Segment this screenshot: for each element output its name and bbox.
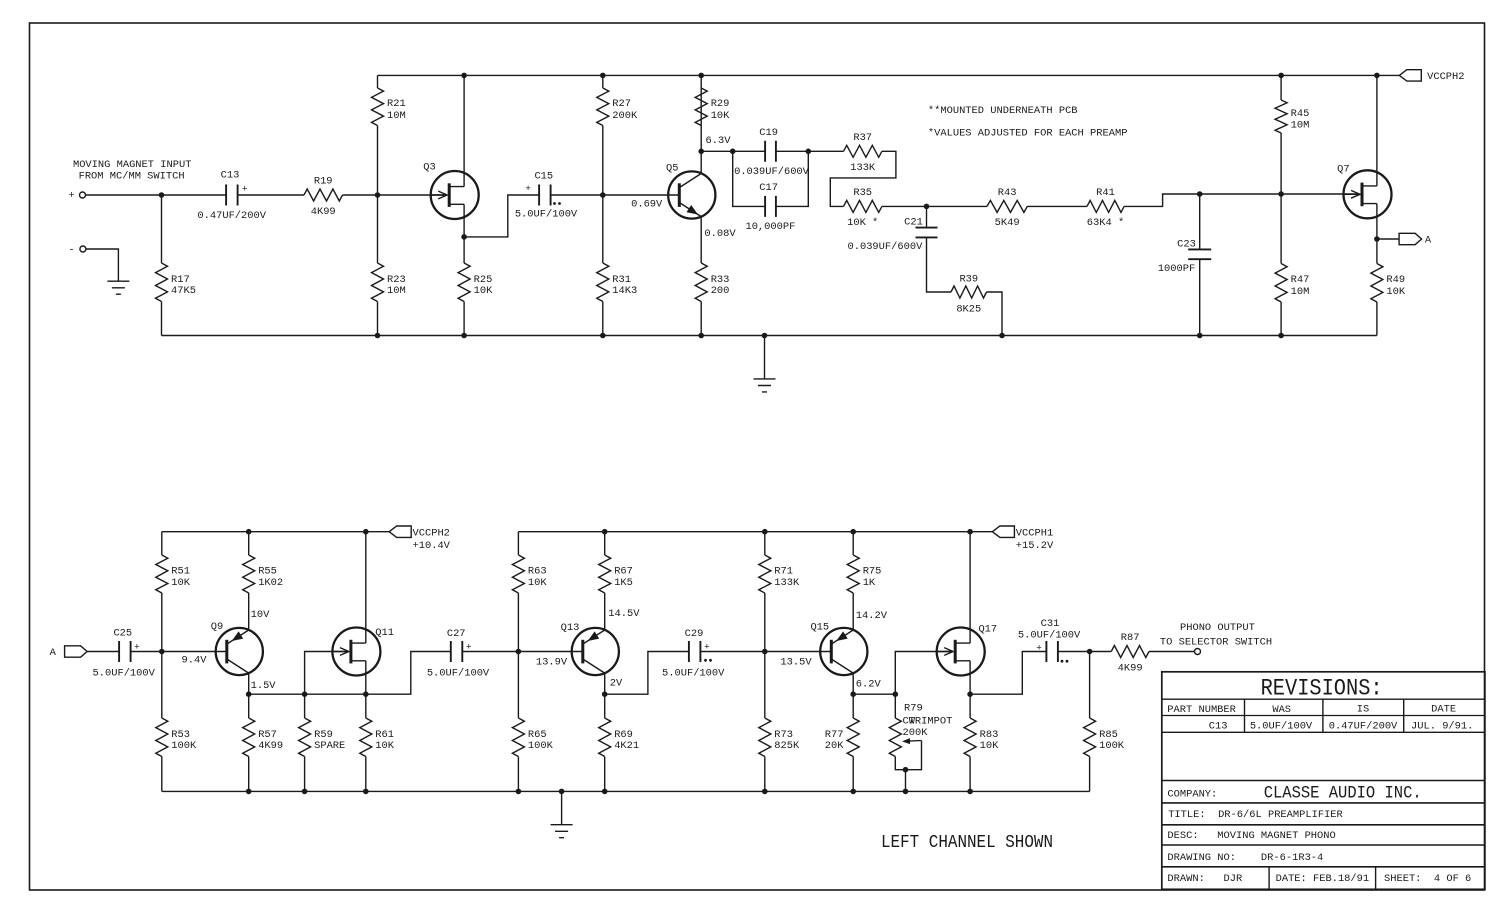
wire R27 to junction	[602, 126, 604, 196]
svg-text:TO SELECTOR SWITCH: TO SELECTOR SWITCH	[1160, 637, 1272, 649]
svg-text:R83: R83	[980, 729, 999, 741]
revision table column lines	[1245, 699, 1404, 732]
svg-text:Q17: Q17	[978, 623, 997, 635]
svg-text:C15: C15	[534, 171, 553, 183]
wire junction to R59	[304, 694, 306, 718]
wire C31 to R87	[1058, 651, 1111, 653]
wire junction to R23	[377, 195, 379, 263]
svg-text:+: +	[68, 190, 74, 202]
junction	[363, 789, 369, 795]
junction R45/R47 node	[1278, 191, 1284, 197]
resistor R57	[243, 718, 255, 757]
resistor R85	[1084, 718, 1096, 757]
title block line above company	[1162, 780, 1485, 782]
transistor Q11 JFET	[332, 628, 380, 676]
junction Q3 source/R25	[461, 234, 467, 240]
wire rail to R55	[248, 532, 250, 555]
ground input	[107, 281, 129, 294]
svg-text:R25: R25	[474, 274, 493, 286]
wire R83 to bottom rail	[969, 757, 971, 792]
resistor R27	[597, 88, 609, 126]
wire node to C23	[1199, 194, 1201, 249]
svg-text:10K: 10K	[980, 740, 999, 752]
wire R49 to bottom rail	[1376, 302, 1378, 336]
resistor R69	[599, 718, 611, 757]
resistor R35	[844, 200, 882, 212]
wire rail to R45	[1280, 75, 1282, 100]
wire Q15 collector down	[852, 673, 854, 694]
svg-text:R37: R37	[853, 132, 872, 144]
junction R55 rail	[246, 529, 252, 535]
svg-text:5.0UF/100V: 5.0UF/100V	[1250, 721, 1313, 733]
wire C29 to Q15 base	[700, 651, 831, 653]
svg-text:R59: R59	[314, 729, 333, 741]
junction R39 bottom rail	[999, 333, 1005, 339]
svg-text:10M: 10M	[1291, 120, 1310, 132]
wire R23 to bottom rail	[377, 302, 379, 336]
resistor R65	[512, 718, 524, 757]
svg-text:R31: R31	[612, 274, 631, 286]
junction Q13 collector	[602, 691, 608, 697]
svg-text:COMPANY:: COMPANY:	[1167, 789, 1217, 801]
svg-text:1K02: 1K02	[258, 577, 283, 589]
top rail VCCPH2 net	[378, 74, 1400, 76]
wire 6.3V to C19	[701, 150, 765, 152]
svg-text:10K *: 10K *	[847, 217, 878, 229]
wire flag A to C25	[87, 651, 119, 653]
wire R45 to node	[1280, 133, 1282, 194]
wire - input to ground	[86, 249, 119, 281]
svg-text:R23: R23	[387, 274, 406, 286]
resistor R87	[1111, 646, 1149, 658]
svg-text:**MOUNTED UNDERNEATH PCB: **MOUNTED UNDERNEATH PCB	[928, 105, 1078, 117]
flag VCCPH2 bottom	[389, 526, 411, 537]
wire R51 to junction	[161, 593, 163, 652]
resistor R73	[759, 718, 771, 757]
junction R79 bottom rail	[903, 789, 909, 795]
junction R47 bottom rail	[1278, 333, 1284, 339]
wire R79 to bottom rail	[905, 770, 907, 792]
title block line under drawing no	[1162, 866, 1485, 868]
svg-text:TRIMPOT: TRIMPOT	[909, 716, 953, 728]
wire R19 to Q3 gate	[343, 194, 447, 196]
resistor R59	[299, 718, 311, 757]
svg-text:+: +	[242, 183, 248, 194]
svg-text:133K: 133K	[774, 577, 800, 589]
svg-text:R17: R17	[171, 274, 190, 286]
wire Q5 emitter to R33	[700, 217, 702, 263]
junction	[461, 333, 467, 339]
resistor R61	[360, 718, 372, 757]
resistor R53	[156, 718, 168, 757]
svg-text:14K3: 14K3	[612, 285, 637, 297]
wire R79 bottom	[895, 757, 905, 770]
wire node A to R49	[1376, 239, 1378, 264]
wire R77 to bottom rail	[852, 757, 854, 792]
svg-text:+15.2V: +15.2V	[1016, 540, 1054, 552]
resistor R71	[759, 555, 771, 593]
wire R69 to bottom rail	[604, 757, 606, 792]
transistor Q17 JFET	[937, 628, 985, 676]
svg-text:1.5V: 1.5V	[251, 680, 277, 692]
svg-text:C17: C17	[759, 182, 778, 194]
title block line under title	[1162, 824, 1485, 826]
wire R33 to bottom rail	[700, 302, 702, 336]
transistor Q13 PNP	[572, 628, 619, 675]
wire R17 to bottom rail	[161, 302, 163, 336]
junction R75 rail	[850, 529, 856, 535]
wire input to C13	[86, 194, 227, 196]
wire Q13 collector down	[604, 673, 606, 694]
svg-text:R61: R61	[375, 729, 394, 741]
junction C31/R85	[1087, 649, 1093, 655]
svg-text:TITLE: DR-6/6L PREAMPLIFIER: TITLE: DR-6/6L PREAMPLIFIER	[1168, 809, 1343, 821]
wire to Q17 gate	[895, 652, 950, 695]
junction R71 rail	[762, 529, 768, 535]
svg-text:C21: C21	[904, 216, 923, 228]
resistor R33	[695, 263, 707, 302]
svg-text:10M: 10M	[387, 110, 406, 122]
svg-text:0.47UF/200V: 0.47UF/200V	[197, 210, 266, 222]
svg-text:R47: R47	[1291, 274, 1310, 286]
svg-text:PHONO OUTPUT: PHONO OUTPUT	[1180, 622, 1255, 634]
capacitor C29	[689, 641, 701, 662]
svg-text:R53: R53	[171, 729, 190, 741]
svg-text:CLASSE AUDIO INC.: CLASSE AUDIO INC.	[1264, 785, 1422, 804]
junction C17 branch top	[730, 149, 736, 155]
terminal phono output	[1195, 649, 1201, 655]
svg-text:+: +	[1036, 642, 1042, 653]
junction R27 rail	[600, 73, 606, 79]
flag VCCPH2 top	[1399, 70, 1421, 81]
wire R47 to bottom rail	[1280, 302, 1282, 336]
wire junction to R79	[894, 694, 896, 718]
svg-text:5.0UF/100V: 5.0UF/100V	[427, 668, 490, 680]
svg-text:R43: R43	[998, 187, 1017, 199]
svg-text:10V: 10V	[251, 609, 270, 621]
svg-text:13.9V: 13.9V	[536, 656, 568, 668]
capacitor C17 parallel branch wire	[733, 151, 765, 206]
svg-text:R35: R35	[853, 187, 872, 199]
svg-text:6.2V: 6.2V	[856, 678, 882, 690]
svg-text:R21: R21	[387, 98, 406, 110]
svg-text:R67: R67	[614, 566, 633, 578]
title block line under revisions	[1162, 698, 1485, 700]
svg-text:R63: R63	[528, 566, 547, 578]
svg-text:R45: R45	[1291, 108, 1310, 120]
resistor R77	[847, 718, 859, 757]
resistor R29	[695, 88, 707, 126]
wire junction to R69	[604, 694, 606, 718]
wire junction to R31	[602, 195, 604, 263]
svg-text:A: A	[50, 647, 57, 659]
svg-text:0.08V: 0.08V	[704, 228, 736, 240]
junction	[602, 789, 608, 795]
wire junction to R25	[463, 237, 465, 263]
svg-text:R71: R71	[774, 566, 793, 578]
wire Q9 collector down	[248, 673, 250, 694]
svg-text:10,000PF: 10,000PF	[745, 221, 795, 233]
wire Q11 source to C27	[366, 652, 451, 695]
wire C23 to bottom rail	[1199, 259, 1201, 335]
resistor R17	[156, 263, 168, 302]
wire Q17 source to C31	[970, 652, 1046, 695]
resistor R37	[844, 145, 882, 157]
svg-text:SHEET: 4 OF 6: SHEET: 4 OF 6	[1384, 873, 1471, 885]
ground bottom section	[551, 825, 573, 838]
svg-text:Q7: Q7	[1337, 164, 1349, 176]
svg-text:+: +	[134, 641, 140, 652]
capacitor C17	[765, 196, 776, 217]
svg-text:10K: 10K	[171, 577, 190, 589]
svg-text:DATE: DATE	[1431, 704, 1456, 716]
trimpot R79 wiper arrow	[906, 740, 922, 743]
svg-text:10K: 10K	[474, 285, 493, 297]
svg-text:14.2V: 14.2V	[856, 610, 888, 622]
junction	[375, 333, 381, 339]
svg-text:R39: R39	[959, 274, 978, 286]
svg-text:SPARE: SPARE	[314, 740, 345, 752]
bottom rail ground net bottom section	[162, 790, 1090, 792]
wire junction to R61	[365, 694, 367, 718]
wire to Q11 gate	[305, 652, 346, 695]
junction	[850, 789, 856, 795]
svg-text:200: 200	[711, 285, 730, 297]
wire R35 to R43	[882, 205, 987, 207]
title block line under header	[1162, 715, 1485, 717]
svg-text:JUL. 9/91.: JUL. 9/91.	[1411, 721, 1473, 733]
svg-text:10K: 10K	[711, 110, 730, 122]
junction	[698, 333, 704, 339]
junction R45 rail	[1278, 73, 1284, 79]
transistor Q5 NPN	[668, 171, 715, 218]
resistor R49	[1371, 264, 1383, 303]
wire Q13 collector to C29	[605, 652, 689, 695]
svg-text:VCCPH2: VCCPH2	[413, 527, 450, 539]
resistor R63	[512, 555, 524, 593]
wire C17 right to junction	[776, 151, 808, 206]
svg-text:Q15: Q15	[810, 622, 829, 634]
junction 6.3V node	[698, 149, 704, 155]
wire C19 to R37	[776, 150, 844, 152]
polarity dots C31	[1061, 660, 1064, 663]
svg-text:Q3: Q3	[423, 162, 435, 174]
junction	[762, 333, 768, 339]
wire Q11 drain to rail	[365, 532, 367, 643]
svg-text:13.5V: 13.5V	[780, 656, 812, 668]
title block bottom row separators	[1269, 867, 1376, 890]
wire rail to ground symbol	[764, 336, 766, 379]
wire R75 to Q15 emitter	[852, 593, 854, 630]
wire rail to R67	[604, 532, 606, 555]
junction	[762, 789, 768, 795]
junction Q7 source node A	[1374, 236, 1380, 242]
svg-text:1K5: 1K5	[614, 577, 633, 589]
resistor R45	[1275, 100, 1287, 133]
junction Q15 collector	[850, 691, 856, 697]
resistor R75	[847, 555, 859, 593]
svg-text:+: +	[525, 183, 531, 194]
junction Q9 collector	[246, 691, 252, 697]
junction C17 branch right top	[806, 149, 812, 155]
wire Q11 source down	[365, 661, 367, 694]
wire R65 to bottom rail	[517, 757, 519, 792]
wire R25 to bottom rail	[463, 302, 465, 336]
svg-text:2V: 2V	[610, 677, 623, 689]
junction C27/R63	[516, 649, 522, 655]
resistor R47	[1275, 264, 1287, 303]
svg-text:R55: R55	[258, 566, 277, 578]
svg-text:R87: R87	[1121, 632, 1140, 644]
junction input/R17	[159, 192, 165, 198]
svg-text:200K: 200K	[903, 727, 929, 739]
svg-text:-: -	[68, 244, 74, 256]
wire Q15 collector to R79 node	[853, 693, 895, 695]
svg-text:10K: 10K	[375, 740, 394, 752]
junction R79 top	[893, 691, 899, 697]
svg-text:Q9: Q9	[211, 621, 223, 633]
transistor Q15 PNP	[820, 628, 867, 675]
junction C15/R27	[600, 192, 606, 198]
svg-text:10K: 10K	[1386, 286, 1405, 298]
wire R57 to bottom rail	[248, 757, 250, 792]
svg-text:5.0UF/100V: 5.0UF/100V	[1018, 629, 1081, 641]
svg-text:4K21: 4K21	[614, 740, 639, 752]
junction C25/R51	[159, 649, 165, 655]
junction Q17 drain rail	[967, 529, 973, 535]
svg-text:100K: 100K	[171, 740, 197, 752]
terminal + input	[80, 192, 86, 198]
wire rail to R51	[161, 532, 163, 555]
svg-text:5.0UF/100V: 5.0UF/100V	[93, 668, 156, 680]
svg-text:*VALUES ADJUSTED FOR EACH PREA: *VALUES ADJUSTED FOR EACH PREAMP	[928, 128, 1128, 140]
junction C23 node	[1197, 191, 1203, 197]
wire R71 to junction	[764, 593, 766, 652]
wire R21 to junction	[377, 126, 379, 196]
svg-text:R85: R85	[1099, 729, 1118, 741]
junction C23 bottom rail	[1197, 333, 1203, 339]
svg-text:C23: C23	[1177, 238, 1196, 250]
svg-text:R57: R57	[258, 729, 277, 741]
wire junction to R53	[161, 652, 163, 719]
wire rail to R75	[852, 532, 854, 555]
svg-text:WAS: WAS	[1272, 704, 1291, 716]
svg-text:133K: 133K	[850, 162, 876, 174]
svg-text:20K: 20K	[825, 740, 844, 752]
svg-text:5.0UF/100V: 5.0UF/100V	[662, 668, 725, 680]
wire Q3 source down	[463, 204, 465, 237]
junction	[302, 789, 308, 795]
wire to flag A	[1377, 238, 1399, 240]
trimpot R79 element	[889, 718, 901, 757]
capacitor C15	[539, 185, 551, 206]
wire junction to R77	[852, 694, 854, 718]
wire Q17 source down	[969, 661, 971, 694]
capacitor C31	[1046, 641, 1058, 662]
svg-text:MOVING MAGNET INPUT: MOVING MAGNET INPUT	[73, 159, 191, 171]
wire R61 to bottom rail	[365, 757, 367, 792]
flag VCCPH1	[992, 526, 1014, 537]
wire C13 to R19	[238, 194, 304, 196]
wire junction to R83	[969, 694, 971, 718]
junction Q11 drain rail	[363, 529, 369, 535]
resistor R51	[156, 555, 168, 593]
wire C25 to Q9 base	[131, 651, 227, 653]
wire Q7 source down	[1376, 204, 1378, 239]
svg-text:FROM MC/MM SWITCH: FROM MC/MM SWITCH	[79, 171, 185, 183]
svg-text:Q11: Q11	[375, 627, 394, 639]
resistor R25	[458, 263, 470, 302]
svg-text:C27: C27	[447, 628, 466, 640]
svg-text:R19: R19	[314, 176, 333, 188]
wire junction to R17	[161, 195, 163, 263]
svg-text:0.69V: 0.69V	[631, 198, 663, 210]
wire R87 to output	[1149, 651, 1195, 653]
wire wiper to bottom	[906, 741, 922, 770]
capacitor C21	[916, 228, 938, 238]
title block line under desc	[1162, 844, 1485, 846]
capacitor C27	[451, 641, 463, 662]
svg-text:R65: R65	[528, 729, 547, 741]
svg-text:LEFT CHANNEL SHOWN: LEFT CHANNEL SHOWN	[881, 833, 1053, 853]
polarity dots C29	[704, 659, 707, 662]
svg-text:4K99: 4K99	[311, 206, 336, 218]
junction R79 wiper/bottom	[903, 767, 909, 773]
svg-text:1K: 1K	[863, 577, 876, 589]
svg-text:R77: R77	[825, 729, 844, 741]
svg-text:R69: R69	[614, 729, 633, 741]
svg-text:200K: 200K	[612, 110, 638, 122]
svg-text:R33: R33	[711, 274, 730, 286]
svg-text:DATE: FEB.18/91: DATE: FEB.18/91	[1276, 873, 1370, 885]
wire junction to R73	[764, 652, 766, 719]
flag A input	[65, 646, 88, 657]
svg-text:Q5: Q5	[666, 163, 678, 175]
svg-text:63K4 *: 63K4 *	[1087, 217, 1124, 229]
wire collector row Q9	[249, 693, 366, 695]
svg-text:C31: C31	[1041, 618, 1060, 630]
terminal - input	[80, 246, 86, 252]
transistor Q9 PNP	[216, 628, 263, 675]
resistor R21	[372, 88, 384, 126]
svg-text:4K99: 4K99	[1118, 662, 1143, 674]
resistor R23	[372, 263, 384, 302]
wire R53 to bottom rail	[161, 757, 163, 792]
svg-text:IS: IS	[1357, 704, 1369, 716]
svg-text:+: +	[704, 641, 710, 652]
resistor R19	[304, 189, 343, 201]
svg-text:C13: C13	[221, 170, 240, 182]
wire C15 to Q5 base	[551, 194, 680, 196]
wire R37 to R35 jog	[830, 151, 896, 206]
svg-text:R73: R73	[774, 729, 793, 741]
svg-text:C19: C19	[759, 127, 778, 139]
junction Q11 source	[363, 691, 369, 697]
junction Q7 drain rail	[1374, 73, 1380, 79]
top rail VCCPH1 net	[518, 531, 992, 533]
wire Q5 collector column	[700, 75, 702, 173]
resistor R67	[599, 555, 611, 593]
svg-text:10M: 10M	[387, 285, 406, 297]
wire R41 to Q7 gate	[1124, 194, 1357, 206]
svg-text:R49: R49	[1386, 274, 1405, 286]
svg-text:+: +	[466, 641, 472, 652]
bottom rail ground net top section	[162, 335, 1377, 337]
svg-text:REVISIONS:: REVISIONS:	[1261, 676, 1383, 702]
svg-text:PART NUMBER: PART NUMBER	[1167, 704, 1236, 716]
capacitor C13	[226, 185, 238, 206]
junction Q17 source	[967, 691, 973, 697]
